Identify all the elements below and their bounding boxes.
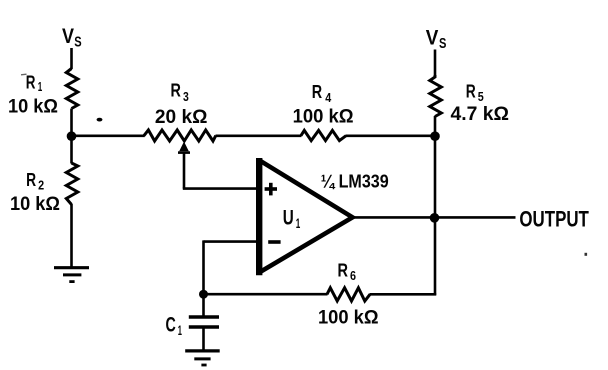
- wire wiper to op-amp + input: [183, 187, 257, 190]
- wire node A to R2: [70, 136, 73, 164]
- label C1: [166, 314, 183, 338]
- svg-text:4.7 kΩ: 4.7 kΩ: [451, 104, 510, 125]
- svg-text:¼ LM339: ¼ LM339: [321, 170, 389, 191]
- net Vs (right) label: [426, 26, 447, 52]
- label R5: [466, 81, 484, 104]
- label R6: [338, 260, 357, 283]
- svg-text:100 kΩ: 100 kΩ: [318, 307, 379, 328]
- R3 wiper arrow: [178, 142, 190, 153]
- resistor R1: [66, 69, 78, 109]
- label R1: [26, 73, 43, 95]
- resistor R2: [66, 163, 78, 205]
- node C junction dot: [199, 290, 208, 299]
- ground (left): [54, 268, 89, 282]
- label R2: [26, 170, 44, 193]
- stray tick above R1: [21, 73, 27, 76]
- label R4: [312, 82, 332, 105]
- svg-text:R: R: [312, 82, 322, 102]
- svg-text:R: R: [466, 81, 476, 101]
- svg-text:U: U: [283, 206, 294, 229]
- wire R1 to node A: [70, 109, 73, 138]
- wire R3 to R4: [216, 135, 302, 138]
- op-amp U1: [259, 158, 352, 275]
- svg-text:20 kΩ: 20 kΩ: [155, 107, 208, 128]
- svg-text:100 kΩ: 100 kΩ: [293, 107, 354, 128]
- wire op-amp - input: [204, 240, 258, 243]
- svg-text:1: 1: [178, 322, 182, 338]
- svg-text:10 kΩ: 10 kΩ: [10, 194, 60, 215]
- wire R3 wiper down: [183, 152, 186, 189]
- svg-text:10 kΩ: 10 kΩ: [8, 97, 58, 118]
- stray speck bottom right: [585, 253, 588, 256]
- svg-text:5: 5: [478, 90, 484, 104]
- resistor R6: [327, 288, 370, 301]
- wire R2 to ground: [70, 204, 73, 267]
- resistor R4: [301, 130, 346, 140]
- wire op-amp output: [353, 216, 516, 219]
- wire Vs-left to R1: [70, 48, 73, 69]
- stray dot speck: [97, 118, 103, 122]
- capacitor C1: [189, 317, 219, 327]
- node B junction dot: [430, 131, 440, 141]
- node A junction dot: [67, 131, 77, 141]
- svg-text:OUTPUT: OUTPUT: [519, 206, 589, 231]
- svg-text:V: V: [62, 25, 74, 48]
- svg-text:V: V: [426, 26, 439, 49]
- wire R4 to node B: [346, 135, 436, 138]
- svg-text:4: 4: [325, 91, 331, 105]
- wire - input down to node C: [202, 240, 205, 295]
- wire C1 to ground: [202, 329, 205, 350]
- wire R5 to node B: [434, 116, 437, 137]
- resistor R5: [430, 75, 442, 117]
- wire output branch vertical: [434, 136, 437, 295]
- label R3: [171, 81, 189, 104]
- wire node C to C1: [202, 293, 205, 316]
- svg-text:1: 1: [296, 215, 301, 231]
- svg-text:S: S: [74, 35, 82, 51]
- label U1: [283, 206, 301, 231]
- net Vs (left) label: [62, 25, 82, 50]
- svg-text:6: 6: [350, 269, 356, 283]
- wire node C to R6: [204, 293, 328, 296]
- svg-text:S: S: [439, 36, 447, 52]
- wire Vs-right to R5: [434, 50, 437, 77]
- resistor R3 (potentiometer body): [144, 130, 216, 141]
- ground (under C1): [185, 351, 220, 365]
- svg-text:R: R: [26, 73, 36, 93]
- svg-text:R: R: [26, 170, 36, 190]
- svg-text:R: R: [338, 260, 349, 280]
- output junction dot: [430, 213, 440, 223]
- svg-text:C: C: [166, 314, 176, 337]
- svg-text:2: 2: [38, 179, 44, 193]
- svg-text:3: 3: [183, 90, 189, 104]
- svg-text:R: R: [171, 81, 181, 101]
- wire node A to R3: [69, 135, 145, 138]
- op-amp - input symbol: [268, 240, 280, 244]
- wire R6 to output branch: [370, 293, 437, 296]
- op-amp + input symbol: [265, 183, 277, 196]
- svg-text:1: 1: [38, 80, 43, 94]
